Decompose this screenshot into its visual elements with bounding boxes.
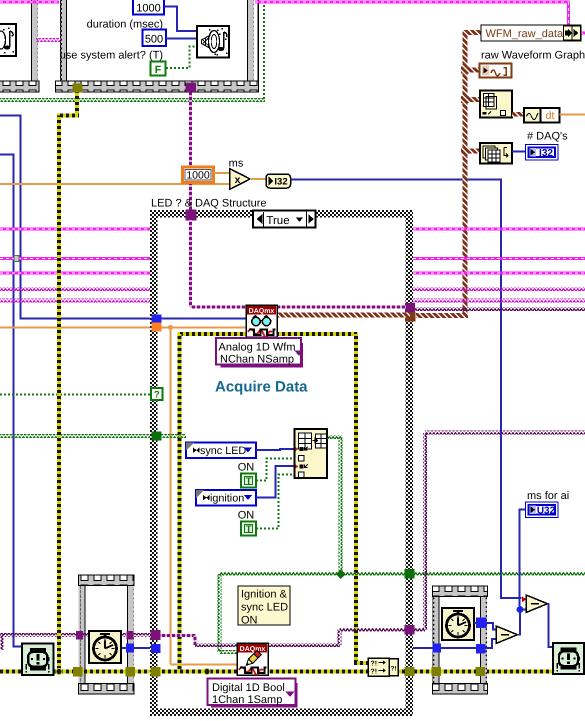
wire blue across frame D	[441, 647, 476, 649]
wire multiply to I32 conversion	[250, 178, 266, 180]
svg-text:sync LED: sync LED	[200, 445, 246, 457]
wire magenta zigzag 1 (left)	[0, 287, 152, 291]
wire purple dashed bottom inside case	[161, 634, 197, 637]
svg-text:dt: dt	[545, 110, 554, 122]
free label Ignition & sync LED ON	[238, 586, 290, 625]
svg-text:1Chan 1Samp: 1Chan 1Samp	[212, 694, 282, 706]
wire green zigzag bool array (right of case)	[413, 572, 585, 576]
indicator # DAQ's I32	[526, 145, 559, 161]
inner structure corner to merge errors	[354, 661, 368, 665]
svg-text:Analog 1D Wfm: Analog 1D Wfm	[218, 342, 295, 354]
outlet subVI icon (bottom-left) U_out1	[22, 644, 54, 676]
flat sequence frame D (bottom-right)	[433, 586, 487, 694]
branch to array size	[465, 149, 480, 154]
boolean constant T (ignition)	[241, 522, 256, 536]
flat sequence frame B (top, with beep VI)	[60, 0, 248, 81]
wire T ignition to build array (dotted)	[256, 475, 295, 529]
svg-text:T: T	[246, 476, 252, 487]
numeric constant 1000 (orange, ms)	[183, 167, 214, 183]
wire orange inside case to DAQmx read	[161, 327, 246, 329]
wire magenta dashed 3 (right)	[413, 257, 585, 260]
tunnel error out (case right)	[405, 667, 415, 676]
local variable sync LED	[186, 443, 256, 459]
wire orange to multiply	[0, 183, 229, 185]
tunnel blue frame D left	[433, 644, 442, 653]
subtract function 1	[496, 626, 518, 644]
wire magenta dashed 2 (right)	[413, 228, 585, 231]
branch to index array	[465, 97, 480, 102]
svg-text:LED ? & DAQ Structure: LED ? & DAQ Structure	[151, 198, 267, 210]
wire sync LED to build array	[256, 449, 295, 450]
wire task purple zigzag (right of case)	[413, 307, 585, 311]
svg-text:DAQmx: DAQmx	[240, 646, 266, 653]
outlet subVI icon (bottom-right) U_out2	[553, 643, 584, 674]
wire blue I32 to bottom-right subtract	[291, 180, 522, 599]
svg-text:I32: I32	[274, 177, 287, 188]
tunnel purple out (case right)	[405, 625, 415, 635]
magenta stub right of WFM_raw_data	[580, 32, 585, 35]
wire subtract2 out to outlet 2	[548, 604, 554, 647]
boolean constant F	[151, 62, 166, 76]
wire magenta zigzag 1 (right)	[413, 287, 585, 291]
error wire junction dot left	[56, 669, 62, 675]
wire 1000 to multiply	[214, 172, 230, 174]
svg-text:U32: U32	[537, 506, 556, 517]
wire purple zigzag across frame C	[83, 633, 126, 637]
polymorphic selector Analog 1D Wfm NChan NSamp	[301, 343, 303, 368]
wire blue upper-left corner	[0, 116, 152, 319]
wire clock4 to frame D tunnel	[474, 622, 476, 624]
svg-text:?!: ?!	[391, 666, 397, 673]
wait ms clock VI (frame D)	[442, 608, 474, 640]
wire error across frame D	[441, 670, 476, 674]
wait ms clock VI (frame C)	[89, 631, 121, 663]
indicator terminal raw Waveform Graph	[480, 64, 512, 78]
wire magenta dashed 2 (left)	[0, 228, 152, 231]
svg-text:500: 500	[145, 34, 163, 46]
numeric constant 1000 (duration)	[133, 0, 164, 15]
flat sequence frame A (top-left, clipped)	[0, 0, 31, 81]
wire clock4 tunnel to subtract 1	[487, 623, 497, 630]
wire green zigzag build array output	[327, 435, 342, 439]
wire blue to outlet (left)	[0, 155, 22, 647]
junction blue dot	[517, 606, 524, 613]
numeric constant 500	[143, 30, 167, 47]
local variable WFM_raw_data	[481, 25, 581, 41]
svg-text:use system alert? (T): use system alert? (T)	[60, 50, 163, 62]
inner structure (yellow dashed border)	[178, 332, 359, 672]
wire error across frame C	[82, 670, 126, 674]
wire array size to I32 indicator	[512, 151, 526, 153]
svg-text:T: T	[246, 524, 252, 535]
orange wire junction	[168, 325, 173, 330]
svg-text:1000: 1000	[136, 3, 160, 15]
wire blue inside case to DAQmx read	[161, 318, 246, 320]
get waveform component dt	[524, 108, 541, 123]
wire ignition to build array	[256, 466, 295, 498]
wire blue clock3 to case (bottom-left)	[122, 647, 152, 649]
case structure LED ? & DAQ Structure	[157, 217, 406, 709]
tunnel error out (frame B bottom)	[73, 84, 83, 93]
wire brown index array to dt	[512, 112, 524, 117]
wire magenta zigzag between frames	[36, 38, 61, 42]
svg-text:# DAQ's: # DAQ's	[527, 131, 568, 143]
tunnel orange in (case left)	[152, 323, 162, 332]
branch to graph terminal	[465, 68, 480, 73]
tunnel blue clock4 out (frame D right)	[476, 618, 487, 629]
DAQmx Write VI U_write	[237, 643, 268, 675]
wire error inside case (main)	[160, 670, 405, 674]
svg-text:sync LED: sync LED	[241, 602, 288, 614]
svg-text:NChan NSamp: NChan NSamp	[220, 354, 294, 366]
tunnel blue in (case left)	[152, 315, 162, 324]
wire error cluster from frame B down	[75, 93, 79, 115]
tunnel error frame C left	[73, 667, 83, 677]
svg-text:Digital 1D Bool: Digital 1D Bool	[212, 682, 285, 694]
wire orange down to DAQmx write	[170, 328, 172, 665]
svg-text:ON: ON	[241, 615, 258, 627]
boolean constant T (sync)	[241, 474, 256, 488]
svg-text:ON: ON	[238, 510, 255, 522]
wire purple zigzag bottom-left	[0, 633, 151, 637]
tunnel task out (case right)	[405, 303, 415, 313]
svg-text:I32: I32	[539, 148, 553, 159]
tunnel error (case left bottom)	[151, 667, 161, 677]
wire task (purple dashed) from frame B down to case	[189, 92, 192, 210]
svg-text:?: ?	[154, 390, 160, 401]
tunnel waveform data out (case right)	[405, 312, 416, 322]
wire orange dt out	[560, 114, 585, 116]
wire task purple inside case	[189, 217, 192, 307]
tunnel error frame D left	[432, 667, 442, 676]
wire junction to subtract 2	[520, 609, 526, 611]
purple stub at left edge	[0, 635, 4, 650]
error wire junction dot	[204, 669, 210, 675]
flat sequence frame C (bottom-left)	[79, 575, 133, 694]
svg-text:F: F	[155, 64, 162, 76]
junction marks on waveform wire	[461, 67, 469, 74]
wire green dotted to case selector	[0, 394, 151, 396]
I32 conversion node	[266, 174, 291, 188]
svg-text:ms: ms	[229, 158, 244, 170]
tunnel blue clock out (frame C right)	[126, 644, 134, 653]
wire error cluster main (right segment)	[413, 670, 553, 674]
wire waveform brown out of DAQmx read	[277, 313, 410, 318]
array size function	[480, 143, 512, 164]
svg-text:Acquire Data: Acquire Data	[215, 379, 308, 396]
svg-text:ms for ai: ms for ai	[527, 490, 569, 502]
DAQmx Read VI U_read	[246, 305, 277, 337]
tunnel green bool array (case left)	[152, 432, 162, 441]
wire green zigzag into sync LED	[161, 434, 186, 438]
coercion dot red (subtract 2)	[522, 597, 527, 603]
wire F to beep (boolean dotted)	[166, 47, 197, 69]
build array function	[295, 429, 328, 478]
wire magenta dashed 4 (left)	[0, 272, 152, 275]
tunnel purple frame C right	[127, 631, 134, 640]
tunnel purple frame C left	[76, 631, 83, 640]
local variable ignition	[196, 490, 256, 506]
wire 1000 to beep	[165, 7, 198, 32]
tunnel blue frame D right lower	[476, 644, 486, 654]
wire magenta dashed top (string)	[0, 1, 59, 4]
wire purple zigzag from case to top right	[413, 628, 425, 632]
beep.vi icon (clipped at left edge)	[0, 24, 16, 56]
svg-text:WFM_raw_data: WFM_raw_data	[486, 28, 565, 40]
svg-text:Ignition &: Ignition &	[241, 589, 288, 601]
beep VI icon U_beep	[197, 26, 229, 58]
wire U32 ms for ai down to junction	[520, 510, 527, 607]
wire waveform brown from case up to indicators	[416, 313, 468, 318]
svg-text:x: x	[235, 174, 241, 186]
wire magenta zigzag 2 (right)	[413, 299, 585, 303]
wire magenta dashed corner down to WFM_raw_data	[567, 2, 570, 25]
wire 500 to beep	[166, 38, 197, 40]
svg-text:DAQmx: DAQmx	[249, 308, 275, 315]
wire magenta dashed 3 (left)	[0, 257, 152, 260]
tunnel blue (case left bottom)	[151, 644, 161, 653]
index array function	[480, 91, 512, 118]
svg-text:?!: ?!	[371, 669, 378, 676]
wire orange to case (left)	[0, 327, 152, 329]
svg-text:True: True	[266, 215, 289, 227]
wire green zigzag to DAQmx write and out	[219, 572, 406, 576]
wire magenta zigzag 2 (left)	[0, 299, 152, 303]
svg-text:?!: ?!	[371, 661, 378, 668]
wire blue across frame D pre	[441, 647, 476, 649]
svg-text:ON: ON	[238, 462, 255, 474]
wire T sync to build array (dotted)	[256, 459, 295, 481]
svg-text:1000: 1000	[186, 170, 210, 182]
tunnel task out (frame B bottom)	[186, 83, 197, 93]
svg-text:ignition: ignition	[210, 493, 244, 505]
case selector terminal ?	[151, 388, 163, 400]
wire blue (right of case, to subtract)	[413, 647, 492, 649]
polymorphic selector Digital 1D Bool 1Chan 1Samp	[296, 683, 298, 708]
wire subtract1 out to junction	[518, 612, 521, 635]
wire green zigzag bool-array (left)	[0, 434, 153, 438]
merge errors node ?!	[368, 658, 389, 676]
tunnel error frame C right	[126, 667, 136, 677]
case selector True	[253, 211, 316, 228]
junction on magenta wire	[14, 256, 19, 262]
wire green dotted vertical right of frame B	[263, 5, 265, 99]
tunnel error frame D right	[476, 667, 486, 676]
wire magenta dashed 4 (right)	[413, 272, 585, 275]
wire blue clock3 out	[121, 647, 126, 649]
wire green zigzag (bool array) below frames	[0, 98, 265, 102]
wire error cluster main (left segment)	[0, 670, 151, 674]
junction green diamond	[336, 570, 345, 579]
tunnel purple (case left bottom)	[151, 630, 161, 640]
wire blue up into subtract 1	[486, 639, 497, 648]
tunnel green out (case right)	[405, 569, 415, 579]
subtract function 2	[526, 595, 548, 613]
multiply function x	[230, 169, 251, 190]
indicator U32 ms for ai	[526, 502, 559, 518]
svg-text:raw Waveform Graph: raw Waveform Graph	[481, 50, 585, 62]
tunnel task in (case top)	[186, 210, 197, 221]
